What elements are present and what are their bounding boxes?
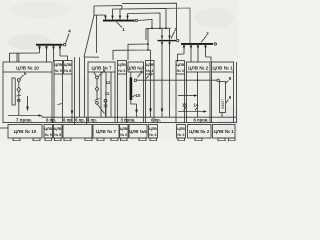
bottom box CLV No6 <box>120 125 129 139</box>
diode on bar 2 c <box>197 45 200 62</box>
enclosure bottom edge <box>3 122 237 124</box>
diode on bar 4 b <box>45 46 48 62</box>
cross cluster bar (group 3) <box>158 40 177 41</box>
relay coil left block <box>12 78 15 105</box>
cross diode up-left <box>161 33 163 40</box>
bottom box CLV No1 <box>213 125 236 139</box>
wire horizontal bus y80 <box>137 79 217 81</box>
diode on bar 2 d <box>204 45 207 57</box>
bottom box CLV No3 <box>177 125 186 139</box>
bus bar 4 (left) <box>36 44 63 46</box>
label 1 pointer <box>117 22 123 28</box>
block CLV No2 header <box>187 62 211 72</box>
cross terminal <box>177 39 179 41</box>
diode on bar 2 b <box>190 45 193 62</box>
top rail to cross terminal <box>122 3 177 39</box>
wire bar2 right drop <box>206 57 212 62</box>
block CLV No9 header <box>54 61 63 75</box>
block CLV No3 header <box>176 61 185 75</box>
block CLV No7 header <box>88 62 115 72</box>
bottom box CLV No5 <box>129 125 147 139</box>
block CLV No4 header <box>146 61 155 75</box>
diagonal wire <box>84 15 94 57</box>
diode D2 on bar 1 <box>111 9 114 20</box>
label 3 pointer <box>171 32 175 39</box>
relay coil block 1 <box>220 82 226 113</box>
left edge stub <box>0 127 8 129</box>
bottom box CLV No4 <box>149 125 158 139</box>
bottom box CLV No2 <box>188 125 212 139</box>
wire drops between blocks 8 and 7 <box>74 57 76 117</box>
wire stepped run B <box>128 44 148 60</box>
wire in block No2 <box>197 72 199 117</box>
scan background <box>0 0 238 141</box>
cross diode down-right <box>168 41 170 49</box>
terminal of bar 4 <box>63 44 65 46</box>
wire cable run with arrow (7 wires) <box>8 115 39 117</box>
wire stepped run C <box>148 49 151 51</box>
diode on bar 4 c <box>52 46 55 62</box>
cross diode down-left <box>161 41 163 49</box>
diode on bar 4 d <box>59 46 62 56</box>
label 14 pointer <box>195 107 198 111</box>
label 10 pointer <box>132 95 135 97</box>
bottom box CLV No9 <box>44 125 53 139</box>
block CLV No8 header <box>64 61 73 75</box>
terminal of bar 2 <box>214 43 216 45</box>
label 8b pointer <box>225 81 229 85</box>
wire stepped run A <box>113 28 148 60</box>
block CLV No5 header <box>128 62 144 72</box>
wire from bar1 right end <box>138 20 153 29</box>
wire bar4 left run <box>10 53 40 62</box>
wire D2 to top right rail <box>113 6 123 9</box>
arrow runs right side <box>178 95 194 97</box>
bottom long box <box>63 125 92 139</box>
wire D4 rail <box>128 13 161 28</box>
wire cross drop left with arrow <box>161 49 163 109</box>
label 5b pointer <box>146 76 149 79</box>
second arrow left block <box>27 96 29 107</box>
bus bar 2 (right) <box>181 43 213 45</box>
block CLV No6 header <box>118 61 127 75</box>
wire D3 rail <box>120 8 166 28</box>
wire riser left <box>94 6 122 16</box>
junction dots <box>151 27 153 29</box>
wire cross drop right <box>169 49 171 74</box>
label 5 pointer <box>20 75 24 79</box>
wire from D1 to left riser <box>94 14 106 16</box>
wire bar2 left drop <box>178 54 185 62</box>
diode D3 on bar 1 <box>119 9 122 20</box>
wire bar4 right drop <box>60 56 68 61</box>
wire double drop <box>16 53 18 62</box>
rail to bar 2 <box>166 8 190 43</box>
small circle contact right of chain <box>104 99 107 102</box>
collector bus above cross <box>146 27 171 29</box>
relay coil (dark) block 5 <box>130 78 133 101</box>
label 15 pointer <box>184 107 187 111</box>
bottom box CLV No8 <box>54 125 63 139</box>
cross diode up-right <box>168 33 170 40</box>
riser into cross <box>145 28 147 40</box>
diode on bar 2 a <box>183 45 186 54</box>
block CLV No10 sides <box>2 72 4 123</box>
contact chain left block <box>17 79 20 82</box>
diode on bar 4 a <box>38 46 41 53</box>
block CLV No1 header <box>212 62 234 72</box>
terminal of bar 1 <box>135 19 137 21</box>
contact chain block 7 <box>96 76 99 79</box>
label 2 pointer <box>201 36 207 43</box>
feet <box>13 138 20 141</box>
label 4 pointer <box>66 34 70 44</box>
vertical wire x96 <box>96 15 98 53</box>
diode D1 on bar 1 <box>104 15 107 20</box>
bus bar 1 (middle top) <box>103 20 135 22</box>
bottom box CLV No7 <box>93 125 119 139</box>
bottom box CLV No10 <box>8 125 42 139</box>
label 8 pointer <box>98 73 102 77</box>
wire y57 left <box>84 56 99 58</box>
right edge line <box>236 62 238 123</box>
label 9 pointer <box>138 74 141 78</box>
diode D4 on bar 1 <box>126 14 129 21</box>
down arrows mid <box>136 104 138 110</box>
cross top feeds <box>161 28 163 33</box>
No9/No8 sides down <box>53 74 55 123</box>
inner wires block 7 <box>100 72 102 117</box>
block CLV No10 header <box>3 62 52 72</box>
